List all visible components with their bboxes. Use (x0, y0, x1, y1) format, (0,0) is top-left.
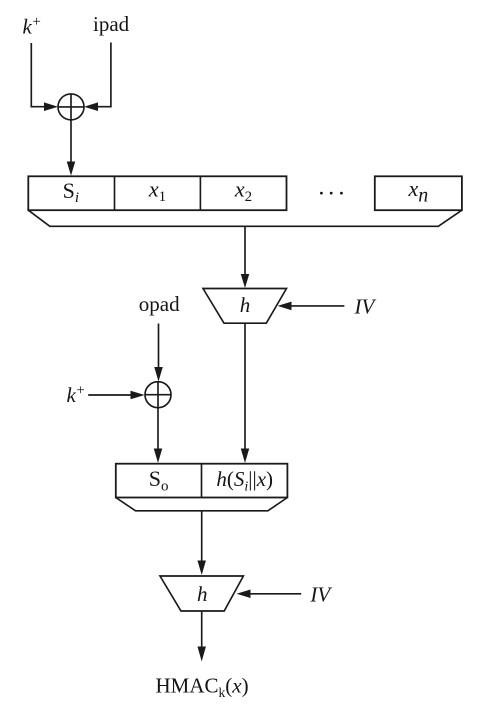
arrowhead h1 output into So block (241, 449, 250, 464)
block outer register So | h(Si||x) (116, 464, 288, 498)
ellipsis dots (320, 192, 343, 195)
svg-text:h: h (240, 293, 251, 317)
arrowhead opad into XOR2 (154, 367, 163, 382)
arrowhead into h2 (197, 561, 206, 576)
svg-text:x2: x2 (234, 177, 252, 206)
wire IV to h2 (251, 593, 302, 595)
arrowhead XOR2 to So (154, 449, 163, 464)
wire IV to h1 (292, 305, 345, 307)
arrowhead into h1 (241, 274, 250, 288)
svg-text:IV: IV (354, 295, 377, 319)
hash function h1 trapezoid (203, 289, 287, 324)
wire XOR1 output to Si block (70, 120, 72, 163)
arrowhead IV into h1 (278, 302, 292, 311)
svg-text:xn: xn (408, 176, 429, 207)
arrowhead IV into h2 (237, 590, 251, 599)
svg-text:ipad: ipad (93, 12, 130, 36)
xor XOR2 (k+ xor opad) (145, 382, 171, 408)
divider x1/x2 (199, 176, 201, 210)
svg-text:x1: x1 (148, 177, 166, 206)
wire banner1 to hash h1 (244, 226, 246, 275)
svg-text:k+: k+ (23, 14, 41, 39)
wire opad to XOR2 (158, 324, 160, 369)
svg-text:h: h (197, 582, 208, 606)
svg-text:IV: IV (309, 583, 332, 607)
wire h1 output to h(Si||x) cell (244, 323, 246, 449)
wire k+ (top) to XOR1 (31, 43, 45, 107)
hash function h2 trapezoid (160, 576, 243, 611)
collector banner 1 (28, 210, 462, 226)
block message register Si|x1|x2 (28, 176, 286, 210)
wire k+ (second) to XOR2 (88, 394, 130, 396)
svg-text:k+: k+ (67, 383, 85, 408)
svg-text:opad: opad (139, 292, 180, 316)
block xn (375, 176, 462, 210)
arrowhead XOR1 to Si (67, 162, 76, 176)
svg-text:h(Si||x): h(Si||x) (216, 467, 273, 495)
svg-text:So: So (149, 466, 169, 495)
svg-text:HMACk(x): HMACk(x) (156, 674, 249, 701)
wire h2 output to HMAC result (201, 611, 203, 648)
divider Si/x1 (114, 176, 116, 210)
svg-text:Si: Si (63, 178, 79, 206)
divider So/h(Si||x) (201, 464, 203, 498)
wire banner2 to hash h2 (201, 511, 203, 562)
arrowhead k+ into XOR1 (44, 102, 58, 111)
arrowhead k+ into XOR2 (131, 391, 145, 400)
wire ipad to XOR1 (97, 43, 111, 107)
xor XOR1 (k+ xor ipad) (58, 94, 84, 120)
collector banner 2 (116, 498, 288, 511)
arrowhead h2 output (197, 647, 206, 662)
arrowhead ipad into XOR1 (84, 102, 98, 111)
wire XOR2 output to So block (157, 408, 159, 450)
